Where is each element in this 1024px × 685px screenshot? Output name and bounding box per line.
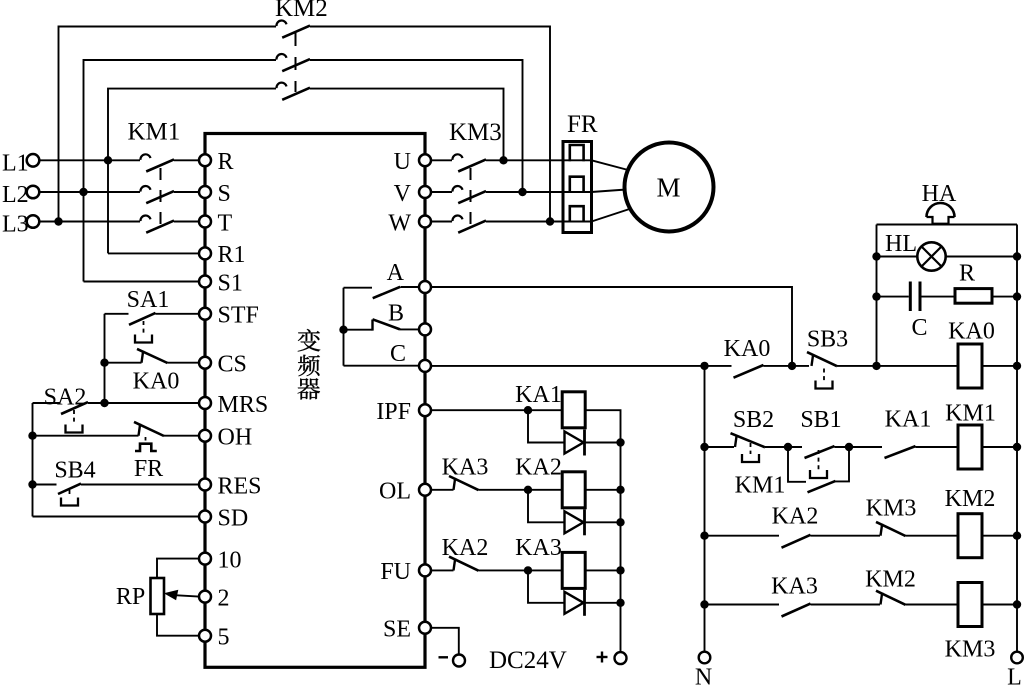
svg-text:R: R (218, 149, 234, 175)
potentiometer RP (151, 578, 165, 614)
svg-text:OL: OL (379, 479, 411, 505)
wire KA0 to CS (168, 362, 199, 364)
wire L3 to KM1 (39, 221, 140, 223)
contactor KM3 contact U (452, 154, 462, 160)
junction dot SB1 right (845, 443, 853, 451)
wire C to R (922, 296, 956, 298)
contactor KM2 contact 3 (276, 83, 286, 89)
wire R1 (108, 252, 199, 254)
contactor coil KM1 (958, 425, 982, 469)
FR thermal actuator (145, 437, 147, 444)
label 变频器 (frequency inverter) (298, 329, 321, 352)
wire FR-out 1 (563, 159, 592, 161)
svg-text:SE: SE (383, 617, 411, 643)
wire KM2 bypass 2 left (84, 60, 277, 282)
wire R to rail (992, 296, 1018, 298)
svg-text:M: M (656, 173, 680, 203)
wire C row (431, 365, 732, 367)
wire KM3 coil to L (982, 604, 1017, 606)
wire KM1 holding branch left (788, 447, 806, 482)
wire V to FR (486, 191, 563, 193)
junction dot V bypass (518, 188, 526, 196)
terminal 2 (pin circle) (199, 591, 211, 603)
wire W lead (431, 221, 452, 223)
junction dot HA-rail (872, 362, 880, 370)
svg-text:2: 2 (218, 585, 230, 611)
svg-text:L3: L3 (2, 212, 29, 238)
contact KM2 interlock (881, 593, 883, 605)
junction dot OH rail (28, 432, 36, 440)
wire FR to motor 1 (592, 160, 631, 170)
wire HA-branch top (877, 224, 1018, 226)
wire KA2 coil out (585, 489, 621, 491)
switch SA1 contact (129, 313, 156, 325)
wire KA1 coil out (585, 410, 621, 652)
relay coil KA0 (958, 344, 982, 388)
motor M (625, 143, 714, 232)
svg-text:KA1: KA1 (515, 382, 562, 408)
terminal S1 (pin circle) (199, 276, 211, 288)
svg-text:RES: RES (218, 473, 262, 499)
terminal S (pin circle) (199, 186, 211, 198)
svg-text:OH: OH (218, 425, 253, 451)
junction dot B bracket (339, 326, 347, 334)
SB1 actuator (818, 450, 820, 470)
wire SB1 to KA1 (835, 446, 883, 448)
wire KM1 holding branch right (836, 447, 850, 481)
wire RES lead (33, 484, 57, 486)
junction dot U bypass (499, 156, 507, 164)
thermal relay FR box (563, 142, 592, 233)
wire FR to motor 3 (592, 209, 632, 222)
wire SA2 lead (33, 402, 61, 404)
junction dot IPF (524, 406, 532, 414)
svg-text:CS: CS (218, 352, 247, 378)
svg-text:FU: FU (380, 559, 411, 585)
KM3 mechanical link (470, 168, 472, 224)
terminal RES (pin circle) (199, 479, 211, 491)
diode VD2 (565, 511, 584, 533)
contact FR on OH (139, 424, 141, 436)
junction dot row3 L (1013, 532, 1021, 540)
junction dot CS (100, 359, 108, 367)
wire OH lead (33, 435, 139, 437)
wire A/B bracket (343, 288, 345, 366)
junction dot L2/S1 (79, 188, 87, 196)
wire U lead (431, 159, 452, 161)
svg-text:C: C (911, 315, 927, 341)
wire KM1-R (174, 159, 199, 161)
terminal 10 (pin circle) (199, 553, 211, 565)
junction dot HL left (872, 252, 880, 260)
junction dot SB1 left (784, 443, 792, 451)
terminal FU (pin circle) (419, 564, 431, 576)
svg-text:KA0: KA0 (948, 319, 995, 345)
wire FU to KA3 coil (479, 569, 564, 571)
svg-text:R: R (959, 261, 975, 287)
svg-text:S1: S1 (218, 270, 243, 296)
resistor R (955, 289, 992, 304)
svg-text:STF: STF (218, 303, 259, 329)
junction dot HL right (1013, 252, 1021, 260)
junction dot row2 L (1013, 443, 1021, 451)
terminal V (pin circle) (419, 186, 431, 198)
KM2 mechanical link (295, 33, 297, 92)
wire RP to 5 (157, 614, 199, 636)
svg-text:A: A (387, 260, 405, 286)
relay coil KA2 (562, 472, 585, 508)
junction dot RC left (872, 292, 880, 300)
svg-text:KM1: KM1 (945, 401, 996, 427)
wire N to SB2 (705, 446, 735, 448)
terminal CS (pin circle) (199, 357, 211, 369)
wire FR to motor 2 (592, 190, 627, 193)
junction dot RC right (1013, 292, 1021, 300)
wire SA1 bracket (104, 314, 106, 403)
wire KM1 coil to L (982, 446, 1017, 448)
FR heater element 3 (570, 206, 584, 222)
SB4 actuator (69, 490, 71, 498)
terminal L1 (27, 154, 40, 167)
wire CS lead (105, 362, 142, 364)
FR heater element 2 (570, 177, 584, 193)
terminal W (pin circle) (419, 216, 431, 228)
pushbutton SB3 contact (812, 354, 814, 366)
SB2 actuator (750, 443, 752, 454)
terminal OL (pin circle) (419, 484, 431, 496)
junction dot KA3 rail (616, 566, 624, 574)
terminal N (699, 652, 711, 664)
svg-text:FR: FR (134, 456, 163, 482)
contact KA0 on CS (142, 351, 144, 363)
wire KA3 coil out (585, 569, 621, 571)
wire SD row (33, 516, 199, 518)
svg-text:N: N (695, 665, 712, 685)
pushbutton SB4 contact (58, 484, 81, 494)
contactor KM1 contact R (140, 154, 150, 160)
terminal U (pin circle) (419, 154, 431, 166)
plus sign (597, 656, 608, 658)
svg-text:RP: RP (116, 584, 145, 610)
wire A-row (431, 287, 792, 366)
junction dot KA0/L-rail (1013, 362, 1021, 370)
svg-text:KM2: KM2 (865, 567, 916, 593)
contactor KM1 contact T (140, 216, 150, 222)
terminal R1 (pin circle) (199, 247, 211, 259)
wire KA0 to SB3 (764, 365, 810, 367)
wire HL lead left (877, 256, 918, 258)
pushbutton SB1 contact (805, 446, 835, 458)
wire KM2 bypass 1 right (310, 27, 550, 222)
wire FR-out 2 (563, 191, 592, 193)
svg-text:T: T (218, 210, 233, 236)
wire N to KA2 (705, 535, 780, 537)
relay contact KM1 holding (808, 481, 836, 492)
junction dot diode2 (616, 518, 624, 526)
contactor coil KM2 (958, 514, 982, 558)
wire L1 to KM1 (39, 159, 140, 161)
svg-text:U: U (394, 149, 411, 175)
wire L rail (1016, 225, 1018, 652)
svg-text:KA3: KA3 (515, 535, 562, 561)
terminal IPF (pin circle) (419, 404, 431, 416)
svg-text:L2: L2 (2, 182, 29, 208)
wire KM2 bypass 3 right (310, 89, 504, 161)
svg-text:KA3: KA3 (771, 573, 818, 599)
wire KM1-S (174, 191, 199, 193)
wire diode3 branch (528, 570, 565, 602)
wire diode3 out (585, 602, 621, 604)
svg-text:S: S (218, 181, 231, 207)
terminal STF (pin circle) (199, 308, 211, 320)
svg-text:DC24V: DC24V (489, 647, 567, 674)
wire KA1 to KM1 coil (916, 446, 959, 448)
svg-text:R1: R1 (218, 242, 246, 268)
wire FR-out 3 (563, 221, 592, 223)
lamp HL (917, 242, 945, 270)
terminal L2 (27, 186, 40, 199)
wire W to FR (486, 221, 563, 223)
svg-text:KA3: KA3 (442, 455, 489, 481)
junction dot MRS (100, 399, 108, 407)
wire HL lead right (946, 256, 1017, 258)
contactor KM2 contact 1 (276, 21, 286, 27)
wire KM2 bypass 1 left (59, 27, 277, 222)
svg-text:KM1: KM1 (735, 473, 786, 499)
svg-text:L1: L1 (2, 151, 29, 177)
minus sign (439, 656, 449, 658)
wire KM3 to KM2 coil (906, 535, 959, 537)
junction dot diode1 (616, 438, 624, 446)
diode VD3 (565, 592, 584, 614)
wire SE lead (431, 628, 459, 655)
junction dot L1/R1 (104, 156, 112, 164)
wire SB4 to RES (81, 484, 199, 486)
svg-text:KM3: KM3 (449, 119, 502, 146)
SA1 actuator (143, 321, 145, 335)
wire L2 to KM1 (39, 191, 140, 193)
wire N rail (704, 366, 706, 652)
wire KA2 to KM3 (811, 535, 881, 537)
switch SA2 contact (61, 402, 88, 414)
junction dot OL (524, 486, 532, 494)
svg-text:KM2: KM2 (945, 486, 996, 512)
svg-text:HL: HL (885, 231, 917, 257)
wire V lead (431, 191, 452, 193)
terminal 5 (pin circle) (199, 630, 211, 642)
wire KM2 bypass 2 right (310, 60, 523, 192)
wire N to KA3 (705, 604, 780, 606)
relay coil KA3 (562, 552, 585, 588)
svg-text:KM1: KM1 (128, 119, 181, 146)
svg-text:KA2: KA2 (515, 455, 562, 481)
wire KA0 coil to L-rail (982, 365, 1017, 367)
diode VD1 (565, 432, 584, 454)
relay coil KA1 (562, 392, 585, 428)
junction dot N-rail top (700, 362, 708, 370)
junction dot row3 N (700, 532, 708, 540)
wire SB3 to KA0 coil (837, 365, 958, 367)
junction dot SB3 branch (788, 362, 796, 370)
wire diode2 out (585, 521, 621, 523)
contactor KM3 contact W (452, 216, 462, 222)
wire 10 to RP (157, 559, 199, 578)
terminal C (pin circle) (419, 360, 431, 372)
relay contact B (371, 320, 373, 331)
svg-text:KM3: KM3 (866, 496, 917, 522)
wire diode2 branch (528, 490, 565, 523)
junction dot KA2 rail (616, 486, 624, 494)
wire C lead left (877, 296, 909, 298)
svg-text:SD: SD (218, 505, 249, 531)
junction dot W bypass (546, 217, 554, 225)
capacitor C (909, 282, 912, 312)
SA2 actuator (73, 410, 75, 425)
wire B contact leads (344, 329, 373, 331)
wire OL to KA2 coil (479, 489, 564, 491)
svg-text:SB2: SB2 (733, 407, 774, 433)
wire OL lead (431, 489, 454, 491)
wire diode1 branch (528, 410, 565, 442)
terminal R (pin circle) (199, 154, 211, 166)
svg-text:SB4: SB4 (54, 458, 95, 484)
junction dot L3 bypass (54, 217, 62, 225)
wire SA1 to STF (156, 313, 199, 315)
terminal OH (pin circle) (199, 430, 211, 442)
svg-text:B: B (388, 301, 404, 327)
terminal L (1011, 652, 1023, 664)
contact KA3 on OL (454, 478, 456, 490)
contactor KM1 contact S (140, 186, 150, 192)
svg-text:KA2: KA2 (772, 504, 819, 530)
svg-text:KM3: KM3 (945, 637, 996, 663)
KM1 mechanical link (160, 168, 162, 224)
relay contact KA3 (782, 604, 811, 617)
relay contact KA2 (782, 535, 811, 548)
svg-text:FR: FR (567, 111, 598, 138)
svg-text:KA1: KA1 (885, 407, 932, 433)
svg-text:C: C (390, 341, 406, 367)
terminal DC24V plus (615, 652, 627, 664)
wire KM2 to KM3 coil (906, 604, 959, 606)
wire SA2 to MRS (88, 402, 199, 404)
svg-text:KA0: KA0 (724, 336, 771, 362)
buzzer HA (927, 203, 955, 217)
svg-text:10: 10 (218, 547, 242, 573)
junction dot row4 N (700, 600, 708, 608)
svg-text:SB1: SB1 (800, 407, 841, 433)
terminal B (pin circle) (419, 323, 431, 335)
svg-text:IPF: IPF (376, 399, 411, 425)
svg-text:KM2: KM2 (275, 0, 328, 22)
contactor coil KM3 (958, 583, 982, 627)
junction dot row2 N (700, 443, 708, 451)
terminal MRS (pin circle) (199, 397, 211, 409)
wire KM2 bypass 3 left (108, 89, 276, 254)
wire S1 (84, 281, 199, 283)
terminal L3 (27, 215, 40, 228)
pushbutton SB2 contact (735, 435, 737, 447)
contactor KM3 contact V (452, 186, 462, 192)
wire IPF row (431, 409, 563, 411)
FR heater element 1 (570, 145, 584, 161)
junction dot FU (524, 566, 532, 574)
wire FU lead (431, 569, 454, 571)
relay contact KA0 (734, 365, 764, 378)
wire C bracket (344, 365, 420, 367)
SB3 actuator (823, 369, 825, 381)
wire SB2 to SB1 (765, 446, 802, 448)
contactor KM2 contact 2 (276, 54, 286, 60)
junction dot diode3 (616, 599, 624, 607)
svg-text:SA1: SA1 (127, 287, 170, 313)
svg-text:5: 5 (218, 625, 230, 651)
wire RP wiper (177, 595, 199, 596)
terminal DC24V minus (453, 655, 465, 667)
contact KA2 on FU (454, 558, 456, 570)
terminal A (pin circle) (419, 281, 431, 293)
wire KM1-T (174, 221, 199, 223)
wire left rail (32, 403, 34, 517)
wire diode1 out (585, 442, 621, 444)
relay contact KA1 (885, 446, 916, 458)
wire A contact leads (344, 287, 373, 289)
wire SA1 lead (105, 313, 129, 315)
wire KM2 coil to L (982, 535, 1017, 537)
relay contact A (373, 287, 401, 298)
svg-text:KA2: KA2 (442, 535, 489, 561)
svg-text:KA0: KA0 (133, 369, 180, 395)
terminal T (pin circle) (199, 216, 211, 228)
wire HA-branch left rail (876, 225, 878, 366)
svg-text:W: W (388, 210, 411, 236)
svg-text:MRS: MRS (218, 392, 269, 418)
wire FR to OH (164, 435, 199, 437)
junction dot row4 L (1013, 600, 1021, 608)
frequency inverter U0 box (变频器) (205, 134, 425, 668)
terminal SE (pin circle) (419, 622, 431, 634)
svg-text:V: V (394, 181, 412, 207)
wire KA3 to KM2 (811, 604, 881, 606)
wire U to FR (486, 159, 563, 161)
svg-text:L: L (1007, 665, 1022, 685)
terminal SD (pin circle) (199, 511, 211, 523)
junction dot RES rail (28, 480, 36, 488)
RP wiper arrow (164, 590, 179, 601)
svg-text:SB3: SB3 (807, 327, 848, 353)
contact KM3 interlock (881, 524, 883, 536)
